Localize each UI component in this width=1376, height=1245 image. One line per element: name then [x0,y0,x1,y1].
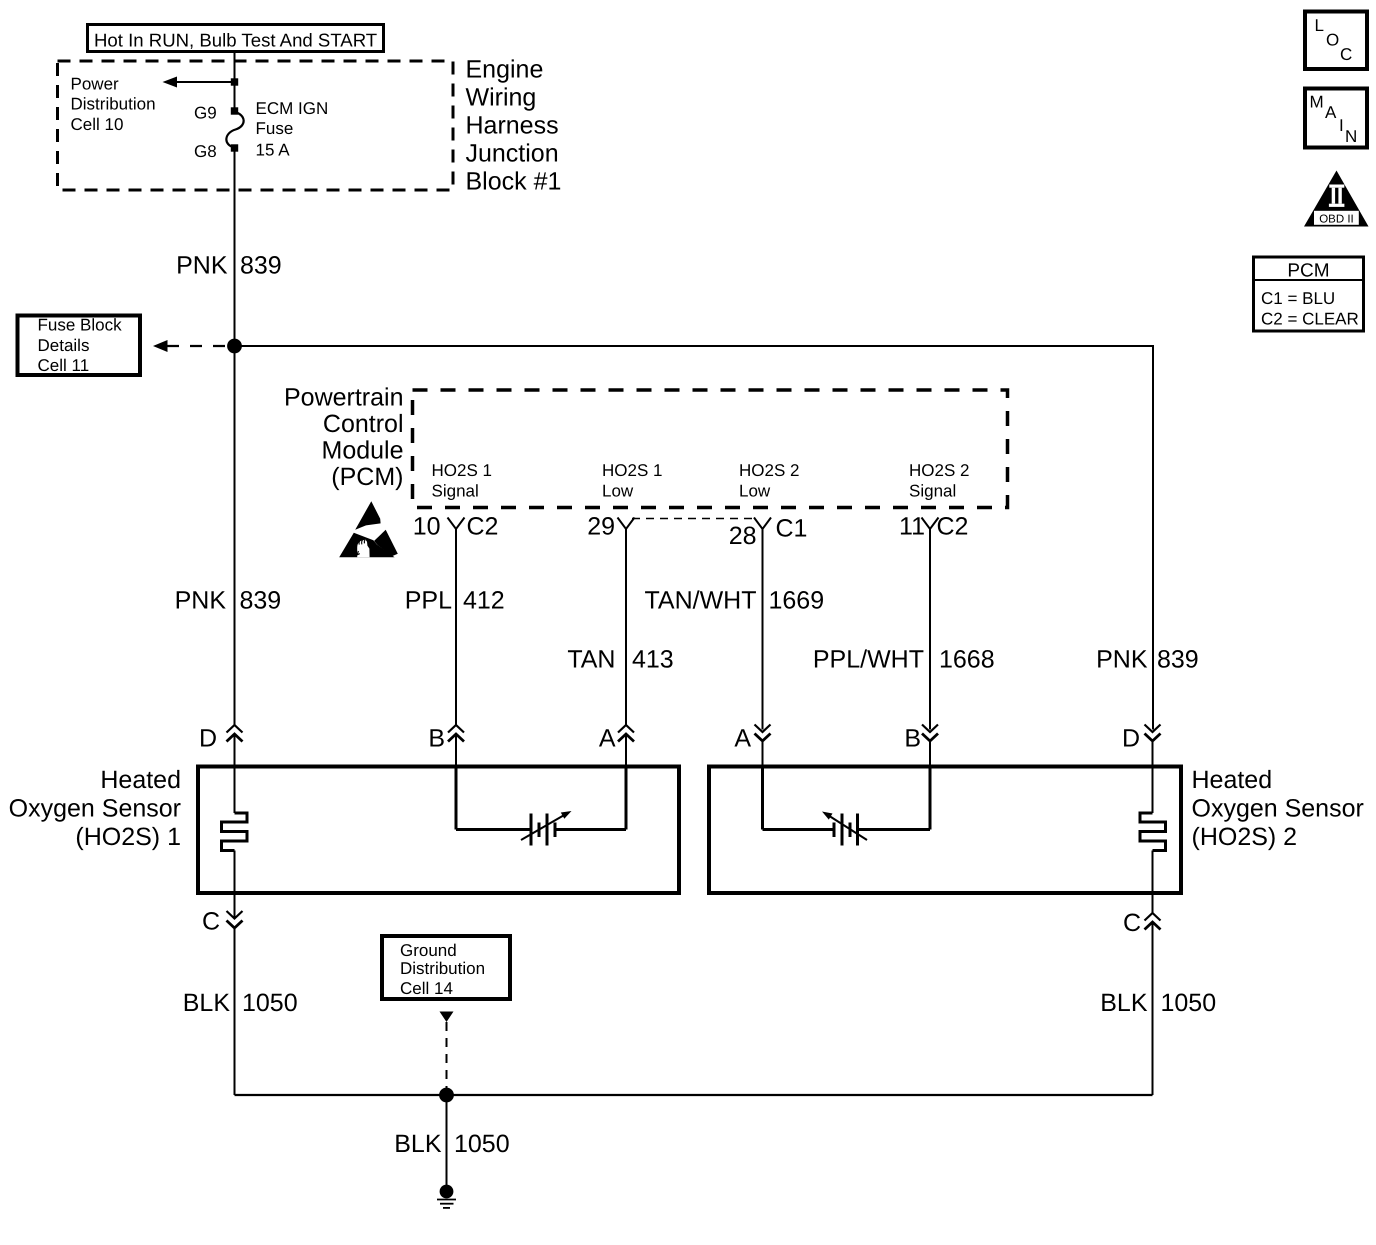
svg-text:BLK: BLK [1100,989,1148,1017]
svg-text:28: 28 [729,522,757,550]
wire PNK into HO2S1 pin D [234,734,236,767]
G8 terminal square [231,144,238,151]
LOC box [1305,12,1367,70]
header box Hot In RUN [88,25,384,52]
svg-text:1050: 1050 [1161,989,1217,1017]
svg-text:C: C [1340,45,1352,64]
wire PPL 412 (pin 10 to connector B) [455,529,457,726]
svg-text:OBD II: OBD II [1319,213,1354,225]
svg-text:C2: C2 [467,513,499,541]
wire PPL/WHT into HO2S2 pin B [929,741,931,768]
PCM label [284,384,404,492]
svg-text:G9: G9 [194,104,217,123]
svg-text:BLK: BLK [183,989,231,1017]
svg-text:Signal: Signal [432,482,479,501]
svg-text:413: 413 [632,646,674,674]
Ground Distribution box [382,936,510,999]
triangle below ground box [440,1012,454,1023]
svg-text:C: C [1123,909,1141,937]
svg-text:Heated: Heated [1192,766,1273,794]
sensor element HO2S1 [456,767,626,846]
Engine Wiring Harness Junction Block #1 label [466,56,562,196]
pin 29 terminal fork [618,518,635,530]
svg-text:15 A: 15 A [256,141,291,160]
svg-text:HO2S 2: HO2S 2 [909,461,969,480]
pin 11 terminal fork [922,518,939,530]
svg-text:Cell 14: Cell 14 [400,979,453,998]
pin 10 terminal fork [448,518,465,530]
svg-text:(HO2S) 2: (HO2S) 2 [1192,823,1298,851]
svg-text:C: C [202,908,220,936]
wire PNK 839 right branch down to HO2S2 D [1152,346,1154,730]
ground symbol [437,1185,456,1208]
wire PNK 839 splice to right branch [235,345,1155,347]
svg-text:Distribution: Distribution [71,95,156,114]
svg-text:10: 10 [413,513,441,541]
svg-text:Wiring: Wiring [466,84,537,112]
dashed arrow to fuse block details [153,340,235,352]
pin 10 C2 [413,513,499,541]
junction dot node [227,339,242,354]
power distribution dashed box [58,61,454,190]
svg-text:A: A [599,725,616,753]
sensor element HO2S2 [763,767,931,846]
PCM dashed box [413,390,1008,508]
svg-text:(HO2S) 1: (HO2S) 1 [75,823,181,851]
wire TAN into HO2S1 pin A [625,734,627,767]
connector C right (up) [1123,893,1161,1095]
dashed wire to bus [446,1022,448,1093]
HO2S pin function labels [432,461,970,501]
svg-text:HO2S 2: HO2S 2 [739,461,799,480]
HO2S 1 box [198,767,679,894]
svg-text:M: M [1310,93,1324,112]
svg-text:HO2S 1: HO2S 1 [602,461,662,480]
HO2S 1 label [9,766,181,851]
svg-text:Block #1: Block #1 [466,168,562,196]
svg-text:Signal: Signal [909,482,956,501]
wire label PPL/WHT 1668 [813,646,995,674]
pin 28 C1 [729,515,808,551]
connector A right (down) [734,725,770,753]
svg-text:29: 29 [587,513,615,541]
connector B left [428,725,464,753]
wire PNK 839 splice down to HO2S1 D [234,346,236,726]
svg-text:1050: 1050 [454,1130,510,1158]
svg-text:839: 839 [240,252,282,280]
power distribution label [71,75,156,135]
svg-text:PNK: PNK [175,587,227,615]
svg-text:PNK: PNK [176,252,228,280]
svg-text:Module: Module [322,437,404,465]
svg-text:PPL/WHT: PPL/WHT [813,646,924,674]
svg-text:Powertrain: Powertrain [284,384,404,412]
MAIN box [1305,89,1367,148]
wire label TAN 413 [567,646,673,674]
wire TAN 413 (pin 29 to connector A) [625,529,627,726]
junction dot bottom [439,1088,454,1103]
wire PPL/WHT 1668 (pin 11 to connector B) [929,529,931,730]
connector D right (down) [1122,725,1161,753]
svg-text:Oxygen Sensor: Oxygen Sensor [1192,795,1364,823]
svg-text:Low: Low [739,482,771,501]
svg-text:ECM IGN: ECM IGN [256,99,329,118]
wire TAN/WHT into HO2S2 pin A [762,741,764,768]
heater element HO2S1 [222,767,248,894]
wire PNK 839 fuse to splice [234,148,236,346]
svg-text:Low: Low [602,482,634,501]
wire label TAN/WHT 1669 [644,587,824,615]
svg-text:839: 839 [240,587,282,615]
svg-text:Junction: Junction [466,140,559,168]
svg-text:11: 11 [899,513,925,541]
svg-text:Control: Control [323,410,404,438]
fuse value label [256,99,329,160]
svg-text:C2 = CLEAR: C2 = CLEAR [1261,310,1359,329]
svg-text:HO2S 1: HO2S 1 [432,461,492,480]
connector D left [199,725,243,753]
Fuse Block Details box [18,316,141,376]
pin 11 C2 [899,513,968,541]
svg-text:Hot In RUN, Bulb Test And STAR: Hot In RUN, Bulb Test And START [94,30,377,51]
ground wire [446,1095,448,1188]
svg-text:L: L [1315,16,1324,35]
fuse ECM IGN 15A [226,112,243,148]
svg-text:O: O [1326,31,1339,50]
connector B right (down) [904,725,938,753]
OBD II symbol [1304,171,1369,227]
dashed connector line pins 29-28 [632,518,757,520]
svg-text:G8: G8 [194,142,217,161]
junction square at arrow [231,78,238,85]
svg-text:839: 839 [1157,646,1199,674]
svg-text:Details: Details [38,336,90,355]
svg-text:Fuse: Fuse [256,119,294,138]
svg-text:A: A [734,725,751,753]
wire label PPL 412 [405,587,505,615]
svg-text:Cell 10: Cell 10 [71,115,124,134]
svg-text:C2: C2 [937,513,969,541]
svg-text:D: D [199,725,217,753]
svg-text:N: N [1345,127,1357,146]
svg-text:412: 412 [463,587,505,615]
pin 28 terminal fork [754,518,771,530]
HO2S 2 box [709,767,1181,894]
wire TAN/WHT 1669 (pin 28 to connector A) [762,529,764,730]
svg-text:1669: 1669 [769,587,825,615]
wire label PNK 839 (top) [176,252,282,280]
arrow to power distribution [163,77,235,88]
svg-text:PPL: PPL [405,587,452,615]
connector A left [599,725,634,753]
wire label BLK 1050 left [183,989,298,1017]
svg-text:PCM: PCM [1287,261,1329,282]
wire from hot feed to fuse [234,51,236,111]
svg-text:C1: C1 [776,515,808,543]
svg-text:PNK: PNK [1096,646,1148,674]
svg-text:1050: 1050 [242,989,298,1017]
svg-text:A: A [1325,103,1337,122]
svg-text:TAN: TAN [567,646,615,674]
connector C left (down) [202,893,243,1095]
svg-text:Engine: Engine [466,56,544,84]
wire label PNK 839 right [1096,646,1199,674]
svg-text:I: I [1339,116,1344,135]
svg-text:Oxygen Sensor: Oxygen Sensor [9,795,181,823]
HO2S 2 label [1192,766,1364,851]
svg-text:B: B [904,725,921,753]
svg-text:Cell 11: Cell 11 [38,356,90,375]
svg-text:Heated: Heated [100,766,181,794]
wire label BLK 1050 right [1100,989,1216,1017]
svg-text:(PCM): (PCM) [331,463,403,491]
svg-text:Fuse Block: Fuse Block [38,316,123,335]
svg-text:Ground: Ground [400,941,457,960]
svg-text:D: D [1122,725,1140,753]
wire PPL into HO2S1 pin B [455,734,457,767]
wire label PNK 839 (middle left) [175,587,282,615]
svg-text:Harness: Harness [466,112,559,140]
svg-text:B: B [428,725,445,753]
svg-text:C1 = BLU: C1 = BLU [1261,289,1335,308]
svg-text:TAN/WHT: TAN/WHT [644,587,756,615]
G9 terminal square [231,107,238,114]
ESD symbol [339,501,398,557]
svg-text:1668: 1668 [939,646,995,674]
svg-text:Distribution: Distribution [400,959,485,978]
PCM legend box [1254,257,1364,331]
heater element HO2S2 [1140,767,1166,894]
svg-text:Power: Power [71,75,120,94]
svg-text:BLK: BLK [394,1130,442,1158]
wire label BLK 1050 bottom [394,1130,509,1158]
bottom bus wire [235,1094,1153,1096]
wire PNK into HO2S2 pin D [1152,741,1154,768]
